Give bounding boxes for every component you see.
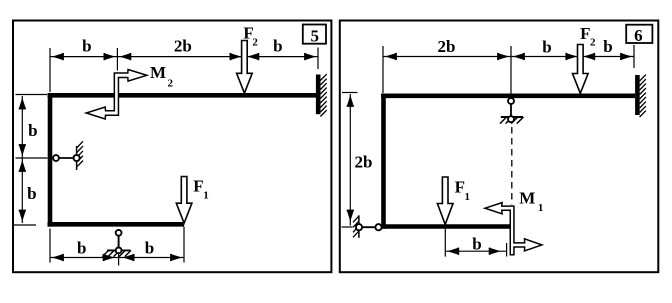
svg-text:1: 1 [465,191,471,203]
svg-text:2b: 2b [438,37,456,56]
svg-text:2b: 2b [355,153,373,172]
svg-text:b: b [472,234,481,253]
svg-text:F: F [193,176,203,195]
svg-text:5: 5 [311,27,320,46]
svg-text:2: 2 [252,37,258,49]
svg-text:b: b [77,238,86,257]
svg-text:2b: 2b [174,36,192,55]
svg-text:2: 2 [590,37,596,49]
svg-text:F: F [455,177,465,196]
svg-text:6: 6 [634,26,643,45]
svg-text:b: b [28,121,37,140]
svg-text:b: b [82,36,91,55]
svg-text:1: 1 [203,190,209,202]
svg-text:b: b [273,37,282,56]
svg-text:b: b [27,184,36,203]
svg-text:M: M [150,63,166,82]
svg-text:F: F [580,24,590,43]
svg-text:2: 2 [168,78,174,90]
svg-text:b: b [542,37,551,56]
svg-text:1: 1 [538,202,544,214]
svg-text:M: M [519,189,535,208]
svg-text:b: b [145,238,154,257]
svg-text:b: b [603,37,612,56]
